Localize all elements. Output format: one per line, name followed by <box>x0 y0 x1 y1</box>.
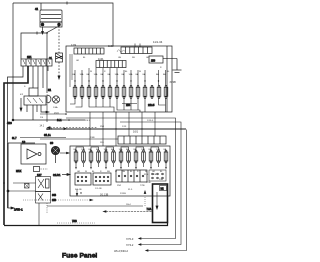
diode box M/1K <box>16 167 48 174</box>
svg-text:13B: 13B <box>159 179 163 181</box>
svg-text:W: W <box>139 71 141 73</box>
fuse F13 <box>157 85 161 98</box>
svg-text:1102: 1102 <box>108 44 114 48</box>
svg-text:1/1-1B: 1/1-1B <box>95 188 102 190</box>
svg-text:1/13-5: 1/13-5 <box>147 120 154 122</box>
fuse row 1 wires above <box>75 68 166 85</box>
svg-text:2N2: 2N2 <box>117 185 122 187</box>
wire bus y114 <box>40 113 66 115</box>
svg-text:2/5B-1: 2/5B-1 <box>14 208 23 212</box>
fuse panel main box lower <box>70 146 170 196</box>
wire pins 3-5 of 15/1 to ignition switch <box>33 66 43 88</box>
node dots on main bus <box>89 128 142 129</box>
relay K1 contacts <box>36 177 51 192</box>
wire dotted up-arrow into lower box <box>144 196 146 206</box>
key symbol D <box>47 95 51 103</box>
svg-text:BL: BL <box>130 171 133 173</box>
wire pin2 of 15/1 to outer left rail <box>4 66 28 225</box>
wire branch down to switch feed <box>46 33 48 93</box>
svg-text:2/4B: 2/4B <box>90 137 95 139</box>
svg-text:16A: 16A <box>115 73 119 76</box>
svg-text:2/4.1: 2/4.1 <box>85 120 91 122</box>
wire bus at y120 <box>13 119 85 121</box>
wire ground feed line <box>163 58 177 60</box>
svg-text:31/31: 31/31 <box>53 173 61 177</box>
svg-text:Fuse Panel: Fuse Panel <box>62 253 97 260</box>
wire leader ticks under 11/1-34 <box>135 44 140 48</box>
svg-text:GN: GN <box>118 57 122 59</box>
svg-text:7/8B: 7/8B <box>72 221 77 223</box>
svg-text:1101: 1101 <box>98 57 104 61</box>
wire left frame vertical <box>12 3 14 120</box>
svg-text:3/9: 3/9 <box>50 143 54 145</box>
svg-text:7/74-2: 7/74-2 <box>126 243 134 247</box>
svg-text:R: R <box>160 67 162 69</box>
svg-text:31.5: 31.5 <box>144 174 149 176</box>
svg-text:2N3: 2N3 <box>100 126 105 128</box>
battery B+ feed box 4/1 <box>35 9 62 27</box>
fuse F4 <box>94 85 98 98</box>
fuse F24 <box>142 150 146 163</box>
label annotations box2 bottom <box>75 174 163 195</box>
wire into relay y191 <box>8 190 36 192</box>
svg-text:16A: 16A <box>129 73 133 76</box>
svg-text:R: R <box>137 171 139 173</box>
svg-text:31.7: 31.7 <box>12 138 17 140</box>
fuse F6 <box>108 85 112 98</box>
svg-text:7/70-3: 7/70-3 <box>126 237 134 241</box>
wire dotted above rail <box>57 222 95 224</box>
node junction battery bus <box>46 32 48 34</box>
connector 16/1 <box>118 130 166 145</box>
wire stub under connector block <box>76 189 78 194</box>
svg-text:1/13: 1/13 <box>122 126 127 128</box>
svg-text:W: W <box>90 71 92 73</box>
svg-text:3/6-2,5/30-2: 3/6-2,5/30-2 <box>114 249 129 253</box>
lamp 3/9 <box>50 143 60 163</box>
fuse F2 <box>80 85 84 98</box>
svg-text:W: W <box>115 171 117 173</box>
svg-text:30B: 30B <box>52 195 57 197</box>
svg-text:16/1: 16/1 <box>133 130 139 134</box>
svg-text:W: W <box>85 171 87 173</box>
svg-text:2/4: 2/4 <box>40 117 44 119</box>
svg-text:11/1-34: 11/1-34 <box>153 40 163 44</box>
wire relay output down <box>38 203 40 225</box>
wire strip A left pins <box>70 54 72 87</box>
wire return 3/6-2 <box>148 130 187 251</box>
fuse F1 <box>73 85 77 98</box>
wire fuse row 2 feed bridges <box>76 147 159 150</box>
fuse F23 <box>134 150 138 163</box>
wire verticals between boxes <box>90 112 155 146</box>
svg-text:1/4A: 1/4A <box>53 106 58 109</box>
wire arrow to 4/2S <box>20 98 22 108</box>
svg-text:2/8: 2/8 <box>153 174 157 176</box>
lock cylinder circle <box>52 96 59 103</box>
node A tick on top wire <box>66 2 68 5</box>
node dots on fuse feeds <box>74 80 159 81</box>
svg-text:2/13.5: 2/13.5 <box>148 105 155 107</box>
ignition switch 5/1 <box>24 88 52 105</box>
wire battery left terminal stub with arrow <box>42 27 44 32</box>
svg-text:BL: BL <box>160 171 163 173</box>
distribution box M2 thick <box>153 184 168 223</box>
svg-text:M2: M2 <box>161 189 165 191</box>
svg-text:4/1: 4/1 <box>35 9 39 11</box>
wire return 7/74-2 <box>120 122 181 245</box>
svg-text:M/1K: M/1K <box>16 171 22 173</box>
svg-text:7/7B: 7/7B <box>146 182 151 184</box>
fuse F11 <box>143 85 147 98</box>
wire dotted below lower box <box>23 199 90 201</box>
wire arrow into lower box <box>60 152 67 154</box>
svg-text:BL: BL <box>167 71 170 73</box>
label annotations left column <box>20 86 58 119</box>
fuse F5 <box>101 85 105 98</box>
fuse F20 <box>112 150 116 163</box>
wire bus y139 <box>40 138 118 140</box>
wire return 7/70-3 <box>141 118 176 239</box>
fuse F22 <box>127 150 131 163</box>
node junction on left frame <box>12 119 14 121</box>
wire dotted relay aux <box>46 203 48 213</box>
connector strip 11B3 <box>74 44 114 54</box>
connector C1 hatch box <box>49 53 63 62</box>
fuse F9 <box>129 85 133 98</box>
connector block 3/1-1B <box>75 173 91 185</box>
wire into relay y183 <box>13 182 36 184</box>
fuse F10 <box>136 85 140 98</box>
svg-text:R: R <box>104 71 106 73</box>
svg-text:S: S <box>24 86 26 88</box>
fuse F15 <box>74 150 78 163</box>
connector 2N3 <box>149 56 163 63</box>
fuse F27 <box>164 150 168 163</box>
wire fuse row 1 output routing <box>70 99 166 113</box>
svg-text:W: W <box>145 171 147 173</box>
junction block speck <box>25 184 30 189</box>
wire battery right terminal to left bus <box>21 26 59 59</box>
wire pin6 of 15/1 stub <box>47 66 49 71</box>
fuse F14 <box>164 85 168 98</box>
wire fuse row 2 outputs with arrows <box>76 163 166 167</box>
svg-text:4/2S: 4/2S <box>7 123 12 125</box>
fuse rating labels row 1 <box>73 73 167 76</box>
svg-text:11B: 11B <box>100 142 104 144</box>
fuse F19 <box>104 150 108 163</box>
wire bus y122 dashed <box>50 127 98 129</box>
annotation squiggle <box>117 50 125 53</box>
connector strip 1103 <box>121 47 152 54</box>
svg-text:5/1: 5/1 <box>48 90 52 92</box>
svg-text:16A: 16A <box>94 73 98 76</box>
svg-text:BL: BL <box>83 57 86 59</box>
svg-text:31.5: 31.5 <box>128 189 133 191</box>
svg-text:14.1: 14.1 <box>40 126 45 128</box>
node junction on outer rail <box>3 182 5 184</box>
wire left inner rail <box>8 142 35 144</box>
fuse F26 <box>157 150 161 163</box>
fuse F8 <box>122 85 126 98</box>
svg-text:7/7B: 7/7B <box>140 185 145 187</box>
svg-text:3/1-1B: 3/1-1B <box>75 189 82 191</box>
wire pin1 arrow to 2/5B-1 <box>8 207 12 209</box>
wire dashed below C1 with arrow <box>58 62 60 76</box>
fuse rating labels row 2 <box>74 148 167 151</box>
svg-text:1B-4: 1B-4 <box>126 204 131 206</box>
svg-text:16A: 16A <box>80 73 84 76</box>
svg-text:3/1.13B: 3/1.13B <box>100 194 109 197</box>
svg-text:2N4: 2N4 <box>126 105 131 107</box>
wire bus below lower box <box>47 205 143 207</box>
svg-text:15B: 15B <box>52 200 57 202</box>
wire inner right vertical <box>166 46 168 112</box>
connector strip 1101 <box>96 57 126 68</box>
svg-text:14.1: 14.1 <box>57 120 62 122</box>
wire main bus y129 <box>46 128 186 130</box>
fuse F21 <box>119 150 123 163</box>
svg-text:SB: SB <box>132 57 135 59</box>
wire bus below box y118 <box>66 117 172 119</box>
svg-text:2N3: 2N3 <box>151 61 156 63</box>
wire ignition feed lower <box>46 104 48 122</box>
svg-text:GN: GN <box>122 171 126 173</box>
wire code labels row 2 <box>77 171 163 173</box>
connector block 2N5 <box>149 170 166 181</box>
wire feed to M2 box <box>106 211 153 213</box>
fuse F12 <box>150 85 154 98</box>
wire switch pins down <box>27 105 37 120</box>
connector block 1/1-1B <box>93 173 111 185</box>
label annotations mid buses <box>85 120 154 144</box>
connector block 2N2 <box>116 170 147 182</box>
fuse F16 <box>82 150 86 163</box>
svg-text:3/1.1A: 3/1.1A <box>44 134 51 137</box>
svg-text:GR: GR <box>152 171 156 173</box>
wire code labels row 1 <box>76 57 170 73</box>
relay K1 lower contacts <box>36 192 57 204</box>
wire top feed from battery along page top <box>13 3 113 46</box>
node junction dot <box>7 190 9 192</box>
svg-text:2/L6: 2/L6 <box>54 112 59 115</box>
amplifier unit 1/9 <box>21 142 46 164</box>
wire bus y137 <box>20 137 66 139</box>
svg-text:7.5A: 7.5A <box>147 208 152 211</box>
svg-text:4/2: 4/2 <box>20 94 24 96</box>
fuse F25 <box>149 150 153 163</box>
svg-text:12/9: 12/9 <box>71 43 77 47</box>
fuse F3 <box>87 85 91 98</box>
svg-text:31/2B: 31/2B <box>170 81 177 84</box>
wire bottom rail <box>4 223 168 226</box>
fuse F7 <box>115 85 119 98</box>
ground 31/2B <box>170 59 182 85</box>
svg-text:2/13B: 2/13B <box>120 193 126 195</box>
node tick on battery bus <box>36 32 38 35</box>
svg-text:GR: GR <box>76 60 80 62</box>
svg-text:BL: BL <box>125 71 128 73</box>
fuse F17 <box>89 150 93 163</box>
fuse panel main box upper <box>66 46 172 112</box>
wire dashed from battery to connector C1 <box>58 26 60 53</box>
wire switch pin right arrow <box>41 105 46 112</box>
wire pin1 of 15/1 to left rail <box>8 66 24 208</box>
connector 15/1 <box>21 57 52 66</box>
fuse F18 <box>97 150 101 163</box>
